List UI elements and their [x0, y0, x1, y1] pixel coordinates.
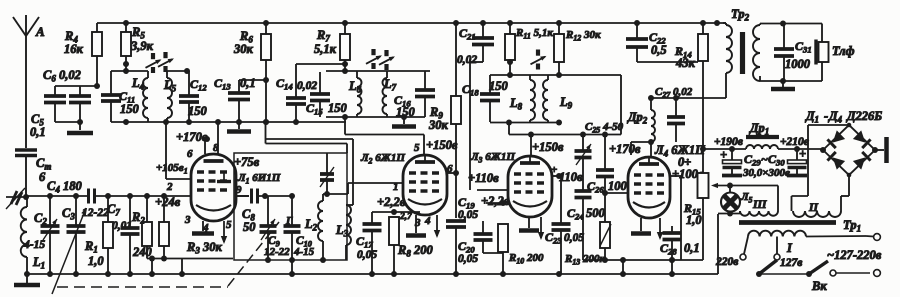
- capacitor C6 0,02: [43, 68, 91, 122]
- label +110в right: [559, 170, 583, 184]
- label +150в at Л3: [532, 140, 564, 154]
- inductor L6: [348, 71, 362, 117]
- capacitor C26 100: [587, 135, 628, 197]
- svg-text:2,7: 2,7: [399, 212, 413, 222]
- capacitor C22 0,5: [626, 23, 698, 62]
- svg-text:50: 50: [243, 220, 256, 234]
- band switch S2b: [379, 50, 396, 70]
- label Д1-Д4 Д226Б: [805, 109, 882, 125]
- winding III: [718, 186, 778, 217]
- inductor L4: [131, 71, 148, 122]
- svg-text:150: 150: [120, 102, 140, 116]
- svg-text:12-22: 12-22: [264, 246, 290, 258]
- resistor R12 30к: [554, 23, 601, 75]
- label tube Л2 name: [360, 152, 405, 166]
- wire box to chassis: [291, 260, 293, 274]
- svg-text:-: -: [824, 109, 828, 123]
- svg-text:+105в1: +105в1: [156, 162, 188, 176]
- svg-text:3: 3: [184, 214, 191, 226]
- capacitor C5 0,1: [30, 86, 97, 139]
- resistor R3 30к: [159, 196, 222, 259]
- svg-text:0,01: 0,01: [112, 220, 132, 232]
- svg-text:II: II: [808, 202, 818, 214]
- svg-text:3: 3: [414, 217, 421, 229]
- resistor R1 1,0: [84, 196, 113, 274]
- capacitor C11 150: [101, 71, 140, 122]
- svg-text:4-15: 4-15: [23, 239, 45, 251]
- ground under Л2: [406, 215, 426, 236]
- svg-text:Г: Г: [285, 215, 293, 227]
- pin 3 of Л1: [184, 214, 191, 226]
- label 127в: [780, 257, 802, 269]
- inductor L5: [163, 71, 177, 122]
- wire bottom chassis rail: [24, 214, 718, 277]
- label 0 div: [678, 155, 691, 169]
- switch Вк: [756, 260, 880, 293]
- svg-text:Д226Б: Д226Б: [846, 109, 882, 123]
- wire heater line: [583, 257, 703, 274]
- resistor R6 30к: [233, 23, 271, 122]
- pin 5 of Л2: [414, 142, 420, 154]
- wire tank5 top: [490, 72, 621, 135]
- trimmer capacitor C10 4-15: [284, 196, 315, 260]
- rectifier bridge Д1-Д4 Д226Б: [820, 123, 878, 178]
- svg-text:+: +: [551, 164, 557, 176]
- heater arrow Л4: [657, 218, 663, 240]
- svg-text:16к: 16к: [64, 42, 84, 56]
- svg-text:Вк: Вк: [811, 279, 827, 293]
- potentiometer R13 200к: [564, 193, 611, 267]
- wire +150 bus to Л3/С25/С26: [509, 122, 621, 155]
- svg-text:43к: 43к: [675, 56, 696, 70]
- transformer Тр1 core: [739, 218, 861, 234]
- wire Л4 anode: [631, 139, 654, 157]
- wire +170v rail: [176, 122, 353, 144]
- node antenna junction: [23, 194, 29, 200]
- transformer Тр2 primary: [723, 23, 732, 98]
- label +150в at Л2: [426, 138, 458, 152]
- svg-text:1,0: 1,0: [686, 213, 702, 227]
- ground below C31: [771, 81, 795, 89]
- inductor L1: [21, 197, 45, 274]
- svg-text:+24в: +24в: [155, 195, 181, 209]
- trimmer capacitor C2 4-15: [23, 196, 60, 274]
- pin 6 of Л2 screen lead: [447, 163, 459, 176]
- svg-text:30к: 30к: [233, 42, 254, 56]
- svg-text:1: 1: [393, 181, 399, 193]
- svg-text:~: ~: [761, 152, 768, 166]
- resistor R4 16к: [64, 23, 102, 86]
- capacitor C29 30,0: [720, 148, 742, 174]
- pin 5 of Л1 heater: [221, 219, 232, 244]
- antenna A: [13, 15, 45, 148]
- transformer Тр2 core: [740, 32, 745, 74]
- capacitor C12 150: [179, 71, 208, 122]
- screen lead Л3: [551, 164, 562, 179]
- wire tank2 top: [167, 68, 190, 74]
- svg-text:0,02: 0,02: [297, 80, 317, 92]
- heater arrow Л3: [538, 217, 544, 240]
- inductor L8: [509, 75, 535, 122]
- resistor R8 200: [389, 217, 433, 274]
- svg-text:0,05: 0,05: [564, 232, 584, 244]
- label tube Л4 name: [654, 143, 706, 159]
- potentiometer R15 wiper arrow: [711, 183, 733, 189]
- gang arrow through C3: [52, 207, 88, 294]
- svg-text:Л3 6Ж1П: Л3 6Ж1П: [470, 151, 515, 165]
- capacitor C14 0,02: [276, 64, 317, 122]
- label tube Л1 name: [237, 172, 281, 186]
- ground under Л4: [631, 218, 651, 234]
- svg-text:0,1: 0,1: [684, 241, 700, 255]
- svg-text:6: 6: [39, 170, 46, 184]
- variable capacitor C3 12-22: [62, 196, 109, 274]
- svg-text:+150в: +150в: [532, 140, 564, 154]
- label +2,2в at Л2: [377, 195, 406, 209]
- svg-text:100: 100: [608, 179, 628, 193]
- tube Л3 6Ж1П: [508, 156, 552, 217]
- wire bridge output: [875, 137, 887, 163]
- choke Др2: [627, 98, 655, 142]
- svg-text:0,02: 0,02: [457, 54, 477, 66]
- wire top +supply rail: [97, 20, 726, 26]
- cathode network Л3 wire: [486, 200, 508, 206]
- wire Л2 anode feed: [345, 117, 424, 155]
- wire C26 to Л4 grid: [605, 192, 628, 194]
- svg-text:110в: 110в: [559, 170, 583, 184]
- wire L3 feed: [352, 139, 354, 205]
- capacitor C30 30,0: [788, 147, 807, 174]
- capacitor C31 1000: [774, 24, 812, 83]
- label +210в: [780, 136, 809, 148]
- resistor R5 3,9к: [121, 23, 154, 71]
- svg-text:1000: 1000: [785, 57, 811, 71]
- label +100в: [672, 167, 704, 181]
- svg-text:+2,2в: +2,2в: [481, 194, 510, 208]
- wire grid lead to Л2: [348, 183, 403, 194]
- ground below tank34: [392, 117, 416, 127]
- label +190в: [714, 136, 743, 148]
- capacitor C27 0,02: [655, 86, 693, 142]
- capacitor C4 180: [47, 179, 95, 204]
- capacitor C16 150: [394, 71, 435, 119]
- wire tank34 top: [326, 68, 430, 74]
- tube Л1 6И1П: [191, 154, 236, 221]
- headphones Тлф: [816, 40, 855, 65]
- svg-text:6: 6: [187, 148, 193, 160]
- resistor R14 43к: [674, 23, 708, 149]
- svg-text:+190в: +190в: [714, 136, 743, 148]
- svg-text:30к: 30к: [428, 118, 449, 132]
- ground chassis bottom-left: [14, 274, 40, 285]
- winding II: [793, 202, 841, 217]
- wire cathode return: [147, 256, 233, 278]
- svg-text:500: 500: [586, 206, 606, 220]
- svg-text:III: III: [752, 199, 767, 211]
- inductor L9: [543, 75, 573, 123]
- wire +150v distribution rail: [263, 119, 347, 153]
- capacitor C13 0,1: [214, 76, 266, 122]
- svg-text:С27 0,02: С27 0,02: [655, 86, 693, 100]
- svg-text:5: 5: [226, 219, 232, 231]
- pin 2 7 label: [399, 212, 413, 222]
- svg-text:+: +: [720, 148, 727, 162]
- label +75в: [234, 155, 260, 169]
- label +105в1: [156, 162, 188, 176]
- pin 4 of Л1 cathode ground: [192, 221, 214, 234]
- band switch S1b: [158, 52, 175, 72]
- wire +190в rail: [700, 146, 746, 152]
- pins 3 4 of Л2: [414, 215, 431, 229]
- capacitor C23 0,05: [545, 176, 584, 274]
- resistor R10 200: [483, 224, 544, 274]
- svg-text:R11 5,1к: R11 5,1к: [515, 27, 553, 41]
- wire tank1 top: [111, 68, 148, 74]
- svg-text:5,1к: 5,1к: [314, 42, 337, 56]
- svg-text:127в: 127в: [780, 257, 802, 269]
- svg-text:150: 150: [489, 79, 509, 93]
- wire C14 to R7: [296, 61, 348, 67]
- label ~127-220в: [827, 248, 882, 262]
- ground below C6: [67, 122, 93, 133]
- svg-text:Л2 6Ж1П: Л2 6Ж1П: [360, 152, 405, 166]
- transformer Тр2 secondary: [753, 24, 760, 82]
- wire Тр2 secondary loop: [760, 21, 822, 85]
- wire tank34 bottom: [326, 114, 425, 120]
- resistor R9 30к: [428, 23, 461, 218]
- inductor L2: [304, 194, 323, 260]
- wire Др2 to Тр2: [648, 95, 726, 101]
- band switch S3: [531, 50, 548, 70]
- svg-text:6: 6: [447, 163, 453, 175]
- svg-text:R8 200: R8 200: [397, 243, 433, 259]
- label +24в: [155, 195, 181, 209]
- choke Др1: [746, 121, 779, 149]
- label +110в: [468, 171, 499, 185]
- label 220в: [715, 256, 738, 268]
- svg-text:~127-220в: ~127-220в: [827, 248, 882, 262]
- cathode network wire: [372, 209, 420, 215]
- screen box around oscillator coils: [234, 153, 347, 263]
- capacitor C15 150: [306, 72, 348, 117]
- svg-text:0,1: 0,1: [240, 76, 256, 90]
- inductor L7: [383, 71, 397, 117]
- heater arrow Л2: [434, 215, 440, 238]
- label Б6 pin: [0, 0, 1, 1]
- svg-text:+2,2в: +2,2в: [377, 195, 406, 209]
- capacitor C24 500: [567, 191, 606, 260]
- svg-text:Л1 6И1П: Л1 6И1П: [237, 172, 281, 186]
- potentiometer R15 1,0: [683, 149, 709, 260]
- capacitor C21 0,02: [457, 23, 494, 190]
- capacitor C18 150: [462, 75, 509, 122]
- label tube Л3 name: [470, 151, 515, 165]
- screen lead Л4: [670, 176, 681, 260]
- wire tuned-circuit top line: [26, 193, 191, 199]
- svg-text:0,05: 0,05: [458, 253, 478, 265]
- svg-text:С6 0,02: С6 0,02: [43, 68, 81, 84]
- pin 2 of Л1: [163, 119, 191, 193]
- capacitor C17 0,05: [356, 212, 382, 274]
- svg-text:3,9к: 3,9к: [130, 39, 154, 53]
- lamp Л5: [721, 191, 753, 212]
- inductor L3: [335, 205, 353, 260]
- resistor R7 5,1к: [314, 23, 350, 71]
- svg-text:+170в: +170в: [609, 142, 641, 156]
- svg-text:0,05: 0,05: [458, 209, 478, 221]
- resistor R2 240: [131, 196, 153, 259]
- transformer Тр2 label: [731, 7, 750, 23]
- coupling trimmer to Л2 grid: [320, 153, 348, 197]
- capacitor C19 0,05: [446, 195, 478, 274]
- node C5-C6 junction: [77, 83, 100, 125]
- svg-text:+75в: +75в: [234, 155, 260, 169]
- band switch S2a: [366, 49, 383, 69]
- label +2,2в at Л3: [481, 194, 510, 208]
- svg-text:С25 4-50: С25 4-50: [585, 121, 624, 135]
- wire tank5 bottom: [490, 120, 562, 126]
- ground below C13: [227, 122, 251, 132]
- pin 6 of Л1: [187, 136, 210, 160]
- pin 9 of Л1: [236, 184, 249, 196]
- svg-text:150: 150: [188, 104, 208, 118]
- svg-text:Тлф: Тлф: [832, 44, 855, 58]
- capacitor C28 0,1: [660, 226, 700, 274]
- resistor R11 5,1к: [505, 23, 553, 75]
- ground below C29: [722, 174, 742, 178]
- wire bridge AC bottom: [841, 175, 849, 211]
- svg-text:150: 150: [328, 101, 348, 115]
- trimmer capacitor in antenna lead: [6, 188, 26, 209]
- svg-text:R10 200: R10 200: [508, 252, 544, 266]
- svg-text:30,0×300в: 30,0×300в: [742, 167, 790, 179]
- svg-text:С4 180: С4 180: [47, 179, 82, 195]
- trimmer capacitor C9 12-22: [260, 196, 291, 260]
- svg-text:+110в: +110в: [468, 171, 499, 185]
- winding I primary: [740, 231, 880, 260]
- capacitor Ct 6: [15, 150, 51, 197]
- capacitor C7 0,01: [107, 196, 140, 274]
- ground below C30: [787, 174, 807, 178]
- svg-text:0,5: 0,5: [651, 43, 667, 57]
- tube Л2 6Ж1П: [403, 155, 447, 215]
- wire +210в rail: [778, 146, 823, 152]
- svg-text:А: А: [35, 24, 45, 39]
- svg-text:+150в: +150в: [426, 138, 458, 152]
- capacitor C20 0,05: [458, 221, 493, 265]
- dashed gang coupling line: [57, 222, 279, 287]
- svg-text:4-15: 4-15: [293, 246, 315, 258]
- label C29-C30: [742, 152, 790, 179]
- pin 1 of Л2: [393, 181, 399, 193]
- svg-text:220в: 220в: [715, 256, 738, 268]
- svg-text:R12 30к: R12 30к: [565, 29, 601, 43]
- svg-text:R3 30к: R3 30к: [186, 240, 222, 256]
- wire bridge AC top: [792, 125, 850, 211]
- svg-text:5: 5: [414, 142, 420, 154]
- ground under Л3: [519, 217, 539, 231]
- svg-text:4: 4: [424, 215, 431, 227]
- band switch S1a: [146, 53, 163, 73]
- wire to Л3 grid: [477, 189, 508, 191]
- capacitor C8 50: [236, 189, 295, 235]
- svg-text:+: +: [799, 147, 806, 161]
- svg-text:1,0: 1,0: [88, 254, 104, 268]
- svg-text:0,05: 0,05: [357, 249, 377, 261]
- wire tank1 bottom / +170 feed bus: [111, 119, 346, 125]
- svg-text:9: 9: [236, 184, 242, 196]
- svg-text:2: 2: [166, 181, 173, 193]
- pin 8 of Л1: [213, 119, 221, 154]
- label +170в at Л4: [609, 142, 641, 156]
- svg-text:+170в: +170в: [176, 130, 208, 144]
- trimmer capacitor C25 4-50: [575, 121, 624, 191]
- svg-text:240: 240: [132, 245, 153, 259]
- tube Л4 6Ж1П: [628, 157, 670, 218]
- svg-text:0,1: 0,1: [30, 125, 46, 139]
